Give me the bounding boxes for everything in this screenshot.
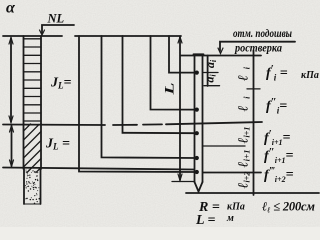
- svg-text:ростверка: ростверка: [234, 43, 282, 55]
- svg-text:L =: L =: [195, 213, 216, 227]
- svg-text:f′i =: f′i =: [266, 63, 288, 83]
- svg-text:кПа: кПа: [301, 70, 319, 81]
- svg-text:м: м: [226, 213, 234, 224]
- svg-text:f″i=: f″i=: [266, 96, 287, 116]
- svg-text:отм. подошвы: отм. подошвы: [233, 28, 292, 40]
- svg-text:α: α: [6, 0, 16, 17]
- svg-text:ℓℓ ≤ 200см: ℓℓ ≤ 200см: [262, 200, 315, 215]
- svg-text:кПа: кПа: [227, 202, 245, 213]
- svg-text:NL: NL: [47, 12, 65, 26]
- svg-text:L: L: [162, 82, 177, 96]
